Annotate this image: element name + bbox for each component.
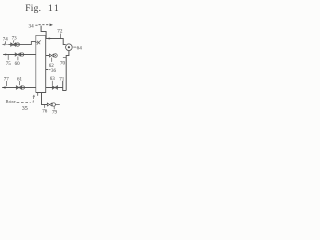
vessel (column) bbox=[36, 36, 46, 93]
svg-text:71: 71 bbox=[59, 77, 65, 82]
valve on bottom outlet (bowtie) bbox=[47, 103, 52, 106]
wire vapor riser from vessel top bbox=[41, 26, 46, 39]
svg-text:Brine: Brine bbox=[6, 99, 16, 104]
leader dash 36 bbox=[49, 69, 51, 71]
flange circle on bottom outlet bbox=[52, 103, 55, 106]
svg-text:70: 70 bbox=[60, 62, 66, 67]
leader tick 74 bbox=[5, 41, 7, 44]
svg-text:35: 35 bbox=[22, 106, 28, 112]
svg-text:76: 76 bbox=[42, 109, 48, 114]
svg-text:60: 60 bbox=[15, 62, 21, 67]
valve 63 (bowtie) bbox=[52, 86, 57, 89]
arrowhead on vapor pipe bbox=[49, 38, 52, 40]
svg-text:Fig.: Fig. bbox=[25, 4, 41, 14]
flange circle on line 2 bbox=[20, 53, 23, 56]
wire pump discharge down (pipe 70/71) bbox=[66, 51, 69, 91]
leader tick 72 bbox=[60, 34, 62, 39]
arrowhead left end line 1 bbox=[2, 44, 5, 46]
svg-text:73: 73 bbox=[12, 37, 18, 42]
wire vapor pipe to pump bbox=[46, 39, 66, 45]
wire feed line 2 (pipe 75) bbox=[3, 54, 36, 56]
vessel bottom left leg bbox=[37, 93, 39, 96]
leader tick 61 bbox=[19, 81, 21, 85]
leader tick 63 bbox=[51, 81, 53, 85]
svg-text:79: 79 bbox=[52, 111, 58, 116]
flange circle on line 1 bbox=[16, 43, 19, 46]
wire bottom outlet continues bbox=[56, 104, 60, 106]
wire recirculation return pipe into vessel bbox=[46, 87, 63, 89]
leader tick 70 bbox=[63, 57, 66, 59]
wire side stub with valve 62 bbox=[46, 55, 50, 57]
svg-text:64: 64 bbox=[77, 45, 83, 51]
valve 60 (bowtie) bbox=[15, 53, 20, 56]
sample port circle bbox=[54, 54, 58, 58]
valve 62 (bowtie) bbox=[49, 54, 53, 57]
leader tick 77 bbox=[6, 81, 8, 86]
leader tick 60 bbox=[17, 57, 19, 61]
valve 73 (bowtie) bbox=[11, 43, 16, 46]
svg-text:11: 11 bbox=[48, 4, 60, 14]
leader tick 79 bbox=[53, 106, 55, 109]
leader tick 75 bbox=[7, 55, 9, 60]
arrowhead brine up bbox=[33, 95, 35, 97]
wire feed line 1 (pipe 74) bbox=[3, 44, 9, 46]
Brine dashed leader bbox=[17, 102, 31, 104]
leader dash 64 bbox=[73, 46, 76, 48]
flange circle on line 3 bbox=[21, 86, 24, 89]
leader tick 73 bbox=[12, 40, 15, 43]
arrowhead left end line 3 bbox=[2, 86, 6, 88]
valve 61 (bowtie) bbox=[16, 86, 21, 89]
svg-text:36: 36 bbox=[51, 69, 57, 74]
svg-text:34: 34 bbox=[29, 24, 35, 30]
node 36 stub bbox=[46, 69, 49, 71]
wire bottom-left line (pipe 77) bbox=[2, 87, 36, 89]
title Fig. 11 bbox=[25, 4, 60, 14]
wire U-trap joining return pipe to downcomer bbox=[63, 81, 66, 91]
leader tick 62 bbox=[51, 58, 53, 62]
pump 64 (circle with hub) bbox=[66, 44, 73, 51]
svg-text:75: 75 bbox=[6, 62, 12, 67]
leader dashed arrow from 34 bbox=[35, 24, 49, 27]
svg-text:72: 72 bbox=[57, 29, 63, 35]
leader tick 76 bbox=[44, 105, 46, 108]
arrowhead left end line 2 bbox=[3, 54, 6, 56]
wire bottom outlet pipe bbox=[42, 93, 48, 105]
spray nozzle inside vessel bbox=[35, 40, 41, 44]
